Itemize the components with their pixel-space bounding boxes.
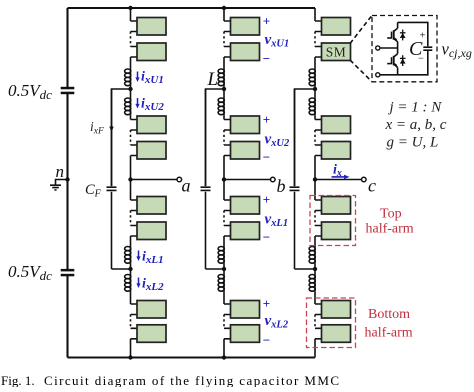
svg-text:+: + bbox=[263, 112, 270, 127]
svg-text:b: b bbox=[277, 176, 286, 196]
svg-text:half-arm: half-arm bbox=[365, 326, 413, 341]
svg-text:a: a bbox=[182, 176, 191, 196]
svg-text:half-arm: half-arm bbox=[366, 222, 414, 237]
svg-text:g = U, L: g = U, L bbox=[387, 135, 439, 151]
svg-text:c: c bbox=[368, 176, 376, 196]
svg-text:+: + bbox=[263, 13, 270, 28]
svg-text:−: − bbox=[263, 333, 270, 348]
svg-text:j = 1 : N: j = 1 : N bbox=[388, 100, 443, 116]
svg-text:+: + bbox=[263, 192, 270, 207]
svg-text:+: + bbox=[263, 296, 270, 311]
svg-text:−: − bbox=[263, 230, 270, 245]
svg-text:Bottom: Bottom bbox=[368, 307, 410, 322]
svg-text:x = a, b, c: x = a, b, c bbox=[385, 117, 447, 133]
svg-text:−: − bbox=[263, 51, 270, 66]
svg-text:SM: SM bbox=[326, 45, 347, 60]
svg-text:L: L bbox=[207, 69, 219, 90]
svg-text:Fig. 1.Circuit diagram of the: Fig. 1.Circuit diagram of the flying cap… bbox=[1, 373, 340, 387]
svg-text:C: C bbox=[409, 38, 423, 60]
svg-text:−: − bbox=[263, 150, 270, 165]
svg-text:Top: Top bbox=[380, 206, 402, 221]
svg-text:n: n bbox=[56, 162, 65, 181]
